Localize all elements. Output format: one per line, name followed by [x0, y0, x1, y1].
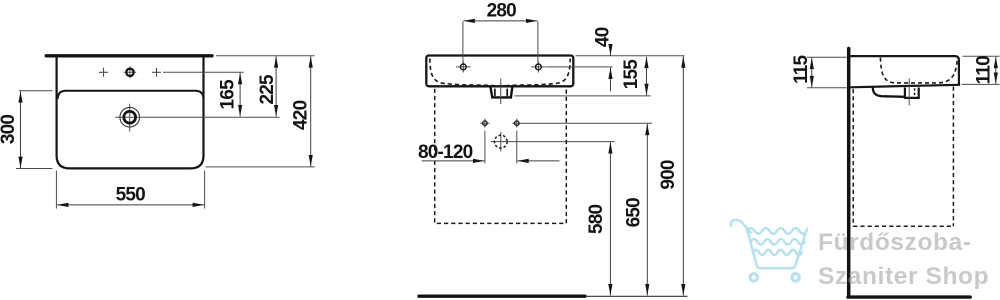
- basin outline (front view): [426, 56, 573, 87]
- 550 extension line left: [55, 171, 57, 209]
- faucet line extension: [163, 71, 244, 73]
- svg-text:115: 115: [791, 54, 812, 83]
- svg-text:550: 550: [116, 185, 146, 206]
- dimension 580 line: [609, 142, 611, 295]
- svg-text:225: 225: [257, 74, 278, 105]
- 280 extension line right: [537, 22, 539, 63]
- 110 extension line bottom: [962, 83, 1000, 85]
- floor line thin (front): [587, 295, 688, 297]
- furniture dashed outline (side): [853, 87, 953, 227]
- svg-text:280: 280: [487, 1, 517, 22]
- trap dashed inner line (side): [914, 88, 916, 96]
- dimension 900 line: [682, 56, 684, 295]
- dimension 40 lower stub: [610, 68, 612, 92]
- svg-text:80-120: 80-120: [418, 142, 473, 163]
- svg-text:155: 155: [621, 59, 642, 90]
- trap axis line (side): [908, 78, 910, 105]
- watermark cart wave 2: [751, 239, 805, 245]
- svg-text:Szaniter Shop: Szaniter Shop: [818, 263, 989, 290]
- dimension 155 line: [646, 57, 648, 95]
- furniture dashed outline (front): [435, 89, 567, 224]
- trap rectangle (side): [905, 88, 919, 98]
- dimension 550 line: [57, 204, 204, 206]
- 115 extension line bottom: [807, 87, 847, 89]
- fixing hole left vertical line: [484, 131, 486, 164]
- faucet hole left (front) ticks: [456, 61, 470, 72]
- 280 extension line left: [462, 22, 464, 63]
- trap curved outline (side): [873, 87, 904, 96]
- watermark cart rim wave: [747, 228, 807, 234]
- inner bowl dashed curve (side): [880, 58, 957, 83]
- dimension 280 line: [463, 20, 537, 22]
- svg-text:110: 110: [973, 56, 994, 84]
- drain inner wall left (front): [494, 89, 496, 97]
- 155 bottom extension line: [515, 95, 651, 97]
- bottom extension line for 300: [16, 168, 53, 170]
- watermark cart handle: [731, 220, 751, 233]
- basin profile outline (side view): [851, 56, 959, 87]
- drain cross lines: [115, 104, 279, 132]
- bottom edge extension line for 420: [206, 166, 315, 168]
- fixing hole left ticks: [480, 119, 489, 128]
- 115 extension line top: [807, 56, 847, 58]
- faucet hole left circle: [460, 64, 466, 70]
- watermark cart wheel right: [792, 274, 799, 281]
- fixing hole right ticks: [512, 119, 521, 128]
- svg-text:40: 40: [593, 27, 614, 47]
- wall line (top view): [46, 54, 212, 57]
- dimension 300 line: [20, 91, 22, 168]
- faucet hole right circle: [536, 64, 542, 70]
- svg-text:300: 300: [0, 115, 19, 145]
- svg-text:165: 165: [217, 79, 238, 110]
- top edge extension line: [216, 55, 315, 57]
- dimension 650 line: [646, 124, 648, 296]
- floor line (side view): [848, 295, 970, 298]
- drain outer circle: [120, 107, 140, 127]
- faucet hole right (front) ticks: [531, 61, 545, 72]
- faucet line extension (front): [546, 66, 613, 68]
- dimension 165 line: [239, 73, 241, 117]
- drain inner circle: [124, 111, 136, 123]
- drain inner wall right (front): [506, 89, 508, 97]
- dimension 40 upper stub: [610, 44, 612, 55]
- watermark cart wheel left: [750, 274, 757, 281]
- 550 extension line right: [204, 171, 206, 209]
- fixing hole extension line: [522, 122, 653, 124]
- dimension 80-120 left stub: [422, 160, 485, 162]
- svg-text:900: 900: [658, 160, 679, 190]
- drain body (front): [490, 87, 512, 98]
- 110 extension line top: [963, 55, 1000, 57]
- drain outlet dashed circle: [494, 135, 507, 148]
- plus mark right (tap position): [152, 68, 161, 77]
- deck extension line for 300: [19, 90, 53, 92]
- floor line thick (front): [419, 295, 585, 298]
- svg-text:420: 420: [290, 100, 311, 130]
- dimension 110 line: [995, 57, 997, 84]
- drain axis line (front): [500, 79, 502, 105]
- drain outlet cross lines: [491, 132, 615, 152]
- svg-text:Fürdőszoba-: Fürdőszoba-: [818, 229, 972, 256]
- wall line (side view): [847, 49, 851, 297]
- dimension 80-120 right stub: [517, 160, 559, 162]
- dimension 420 line: [310, 56, 312, 166]
- svg-text:580: 580: [586, 205, 607, 235]
- basin inner deck line (top view): [58, 91, 204, 99]
- inner bowl dashed curve (front): [430, 59, 570, 86]
- faucet hole circle: [126, 69, 133, 76]
- fixing hole right circle: [515, 121, 520, 126]
- faucet hole cross ticks: [124, 66, 136, 78]
- plus mark left (tap position): [99, 68, 108, 77]
- watermark cart wave 3: [753, 250, 802, 255]
- fixing hole left circle: [483, 121, 488, 126]
- watermark cart basket: [747, 229, 807, 268]
- fixing hole right vertical line: [516, 131, 518, 164]
- basin outer outline (top view): [57, 57, 204, 168]
- basin top long extension line: [576, 55, 685, 57]
- svg-text:650: 650: [624, 198, 645, 228]
- dimension 225 line: [275, 56, 277, 116]
- dimension 115 line: [811, 58, 813, 88]
